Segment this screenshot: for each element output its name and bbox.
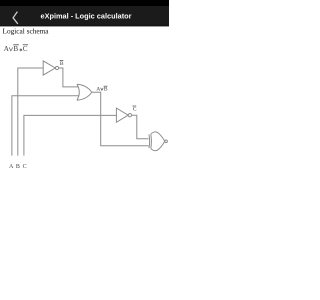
wire input A vertical + horizontal to OR bottom input [12, 96, 79, 156]
final gate body top curve [151, 132, 165, 141]
svg-text:B: B [16, 164, 20, 170]
final gate input arc 2 [150, 134, 153, 148]
svg-text:A: A [4, 45, 10, 53]
svg-text:A: A [9, 164, 14, 170]
final gate output bubble [165, 140, 168, 143]
final gate body bottom curve [151, 141, 165, 150]
wire NOT1 output to OR top input [59, 68, 79, 87]
NOT gate 2 (C inverter) triangle [116, 108, 128, 122]
svg-text:C: C [23, 164, 27, 170]
wire input B vertical + horizontal to NOT1 [18, 68, 43, 156]
status bar strip [0, 0, 169, 6]
circuit text labels [9, 61, 137, 170]
title bar bottom edge [0, 25, 169, 26]
wire NOT2 output down to final gate top input [132, 115, 149, 139]
NOT gate 1 bubble [55, 66, 58, 69]
svg-text:B: B [104, 87, 108, 93]
svg-text:C: C [23, 45, 28, 53]
svg-text:B: B [60, 61, 64, 67]
svg-text:C: C [133, 107, 137, 113]
formula A v B * C with overlines [4, 45, 28, 53]
back chevron [13, 12, 18, 24]
svg-text:Logical schema: Logical schema [3, 27, 50, 36]
OR gate U1 body [77, 84, 92, 100]
title bar [0, 6, 169, 26]
formula OR operator [9, 47, 13, 51]
NOT gate 2 bubble [128, 114, 131, 117]
wire input C vertical + horizontal to NOT2 [24, 115, 117, 155]
circuit [12, 61, 168, 156]
final gate (AND drawn XNOR-style) input arc 1 [148, 134, 151, 148]
formula overline over B [13, 44, 19, 46]
formula AND (asterisk) operator [20, 48, 23, 51]
svg-text:A: A [96, 87, 100, 93]
wire OR output down to final gate bottom input [92, 92, 149, 146]
formula overline over C [23, 44, 28, 46]
NOT gate 1 (B inverter) triangle [43, 61, 55, 75]
svg-text:B: B [13, 45, 18, 53]
svg-text:eXpimal - Logic calculator: eXpimal - Logic calculator [40, 11, 131, 20]
